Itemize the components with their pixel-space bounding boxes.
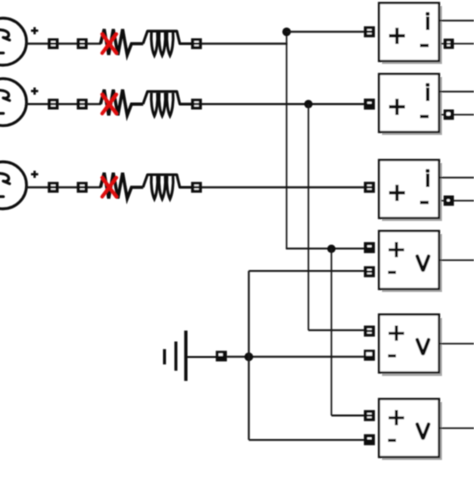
inductor L1 (coil of series RL branch)	[143, 31, 192, 55]
wire between ports row 3	[58, 186, 78, 188]
wire to voltage measurement V3 plus port	[331, 415, 365, 417]
connection port 3 on row 2 (after inductor)	[191, 99, 202, 110]
wire from port to resistor row 3	[87, 186, 101, 188]
wire from port to resistor row 2	[87, 103, 101, 105]
wire row 3 to current measurement I3	[202, 186, 366, 188]
wire ground to voltage measurement V1 minus port	[249, 270, 365, 272]
I3 output signal wire (i)	[440, 177, 474, 179]
voltage measurement block V1	[379, 231, 442, 292]
current measurement block I2	[379, 74, 442, 135]
ground connection port	[216, 351, 227, 362]
wire ground to voltage measurement V3 minus port	[249, 439, 365, 441]
connection port 1 on row 3	[48, 182, 59, 193]
resistor R1 (zigzag of series RL branch)	[101, 29, 144, 55]
wire phase A horizontal to node C and voltage measurement V1 plus port	[286, 248, 365, 250]
V2 output signal wire	[440, 343, 474, 345]
V1 output signal wire	[440, 259, 474, 261]
I2 output signal wire (i)	[440, 91, 474, 93]
voltage measurement block V2	[379, 315, 442, 377]
wire node A to current measurement I1 plus port	[287, 31, 366, 33]
wire ground port to node D and voltage measurement V2 minus port	[227, 356, 365, 358]
connection port 1 on row 1	[48, 38, 59, 49]
I2 plus input port	[364, 99, 375, 110]
wire row 2 to current measurement I2	[202, 103, 366, 105]
I2 minus terminal wire	[441, 114, 474, 116]
V2 minus input port	[364, 350, 375, 361]
wire vertical ground bus	[248, 271, 250, 440]
red fault marker X on resistor R3	[102, 178, 116, 197]
wire from source V3 to port	[25, 186, 49, 188]
node A junction dot	[282, 28, 291, 37]
I1 minus terminal wire	[441, 43, 474, 45]
wire ground to ground port	[187, 356, 217, 358]
V3 plus input port	[364, 410, 375, 421]
I3 minus terminal wire	[441, 200, 474, 202]
wire between ports row 1	[58, 43, 78, 45]
AC voltage source V2	[0, 79, 38, 126]
wire from source V2 to port	[25, 103, 49, 105]
resistor R3 (zigzag of series RL branch)	[101, 173, 144, 199]
V3 minus input port	[364, 434, 375, 445]
I1 plus input port	[364, 26, 375, 37]
I1 output signal wire (i)	[440, 20, 474, 22]
red fault marker X on resistor R1	[102, 34, 116, 53]
inductor L3 (coil of series RL branch)	[143, 175, 192, 199]
connection port 2 on row 2	[77, 99, 88, 110]
red fault marker X on resistor R2	[102, 95, 116, 114]
I3 plus input port	[364, 182, 375, 193]
I2 minus port	[444, 110, 454, 120]
connection port 2 on row 1	[77, 38, 88, 49]
wire between ports row 2	[58, 103, 78, 105]
AC voltage source V1	[0, 18, 38, 65]
connection port 1 on row 2	[48, 99, 59, 110]
V1 minus input port	[364, 266, 375, 277]
I3 minus port	[444, 196, 454, 206]
wire vertical from node C down	[330, 249, 332, 416]
wire from port to resistor row 1	[87, 43, 101, 45]
wire vertical phase A riser to node A	[286, 32, 288, 249]
connection port 3 on row 3 (after inductor)	[191, 182, 202, 193]
voltage measurement block V3	[379, 399, 442, 460]
connection port 3 on row 1 (after inductor)	[191, 38, 202, 49]
node D ground junction dot	[244, 352, 253, 361]
V1 plus input port	[364, 242, 375, 253]
node C junction dot	[327, 245, 335, 253]
current measurement block I1	[379, 3, 442, 64]
wire from source V1 to port	[25, 43, 49, 45]
wire phase B to voltage measurement V2 plus port	[308, 329, 365, 331]
node B junction dot on row 2	[304, 100, 312, 108]
V3 output signal wire	[440, 427, 474, 429]
inductor L2 (coil of series RL branch)	[143, 92, 192, 116]
current measurement block I3	[379, 160, 442, 221]
ground symbol	[163, 331, 188, 381]
wire vertical phase B drop	[307, 104, 309, 330]
resistor R2 (zigzag of series RL branch)	[101, 90, 144, 116]
AC voltage source V3	[0, 162, 38, 209]
V2 plus input port	[364, 326, 375, 337]
I1 minus port	[444, 39, 454, 49]
wire row 1 from RL branch to branch point	[202, 43, 288, 45]
connection port 2 on row 3	[77, 182, 88, 193]
